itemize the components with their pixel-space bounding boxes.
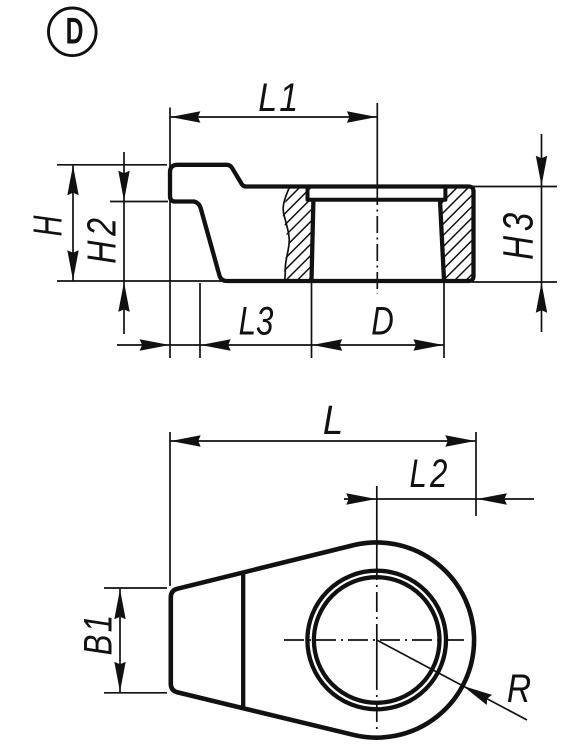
view label circle D bbox=[49, 8, 97, 56]
dimension H3 bbox=[541, 134, 543, 332]
dimension B1 bbox=[119, 589, 121, 692]
radius leader R bbox=[377, 640, 527, 720]
svg-text:L: L bbox=[323, 398, 343, 443]
counterbore seat edge bbox=[308, 187, 446, 200]
svg-text:B1: B1 bbox=[76, 613, 121, 656]
svg-text:H3: H3 bbox=[496, 208, 543, 260]
svg-text:H2: H2 bbox=[79, 213, 125, 263]
chamfer circle (plan view) bbox=[307, 571, 446, 710]
svg-text:H: H bbox=[24, 215, 70, 236]
svg-text:L3: L3 bbox=[239, 299, 274, 344]
svg-text:L1: L1 bbox=[258, 74, 300, 119]
dimension chain L3 and D bbox=[117, 344, 444, 346]
section hatching right of hole bbox=[322, 170, 577, 300]
section hatching left of hole bbox=[165, 170, 431, 300]
hole wall left bbox=[312, 201, 314, 281]
neck edge line (plan view) bbox=[241, 573, 245, 709]
dimension L1 bbox=[170, 116, 377, 118]
vertical centerline (plan view) bbox=[376, 486, 378, 514]
clamp body outline (plan view, teardrop) bbox=[171, 542, 474, 737]
svg-text:R: R bbox=[507, 666, 531, 710]
svg-text:D: D bbox=[371, 299, 394, 344]
break line bbox=[283, 187, 289, 281]
clamp body outline (section view) bbox=[170, 165, 474, 281]
hole circle (plan view) bbox=[314, 577, 440, 703]
hole wall right bbox=[440, 201, 444, 281]
horizontal centerline (plan view) bbox=[284, 639, 467, 641]
dimension H bbox=[72, 165, 74, 282]
dimension H2 bbox=[123, 152, 125, 334]
svg-text:L2: L2 bbox=[410, 451, 451, 496]
dimension L2 bbox=[344, 498, 534, 500]
dimension L bbox=[170, 440, 476, 442]
hole centerline (section view) bbox=[376, 103, 378, 188]
svg-text:D: D bbox=[66, 9, 84, 51]
